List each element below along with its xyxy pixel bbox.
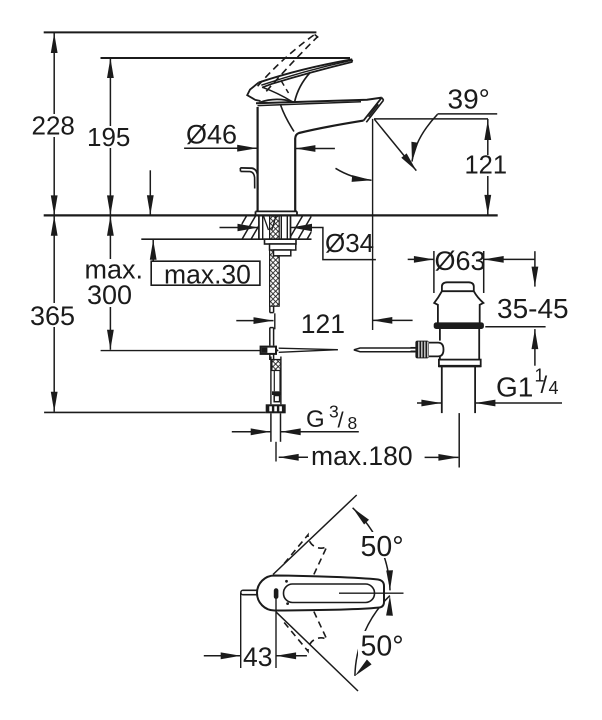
svg-text:300: 300	[87, 280, 132, 310]
svg-text:8: 8	[348, 413, 358, 433]
svg-text:G1: G1	[496, 372, 533, 403]
svg-text:43: 43	[243, 642, 272, 672]
svg-text:max.30: max.30	[164, 260, 251, 290]
svg-text:Ø34: Ø34	[325, 228, 374, 258]
svg-text:/: /	[541, 372, 548, 399]
svg-text:max.180: max.180	[311, 441, 413, 471]
svg-text:Ø63: Ø63	[435, 246, 486, 276]
svg-text:121: 121	[465, 152, 508, 180]
svg-text:195: 195	[87, 122, 130, 152]
svg-text:228: 228	[32, 111, 75, 141]
svg-text:35-45: 35-45	[497, 293, 569, 324]
svg-text:Ø46: Ø46	[186, 120, 237, 150]
svg-text:365: 365	[30, 301, 75, 331]
svg-text:39°: 39°	[448, 84, 490, 115]
svg-text:4: 4	[549, 378, 559, 398]
svg-text:50°: 50°	[361, 631, 404, 663]
svg-text:G: G	[306, 406, 325, 433]
svg-text:50°: 50°	[361, 531, 404, 563]
svg-text:/: /	[338, 408, 345, 433]
svg-text:121: 121	[301, 309, 345, 339]
